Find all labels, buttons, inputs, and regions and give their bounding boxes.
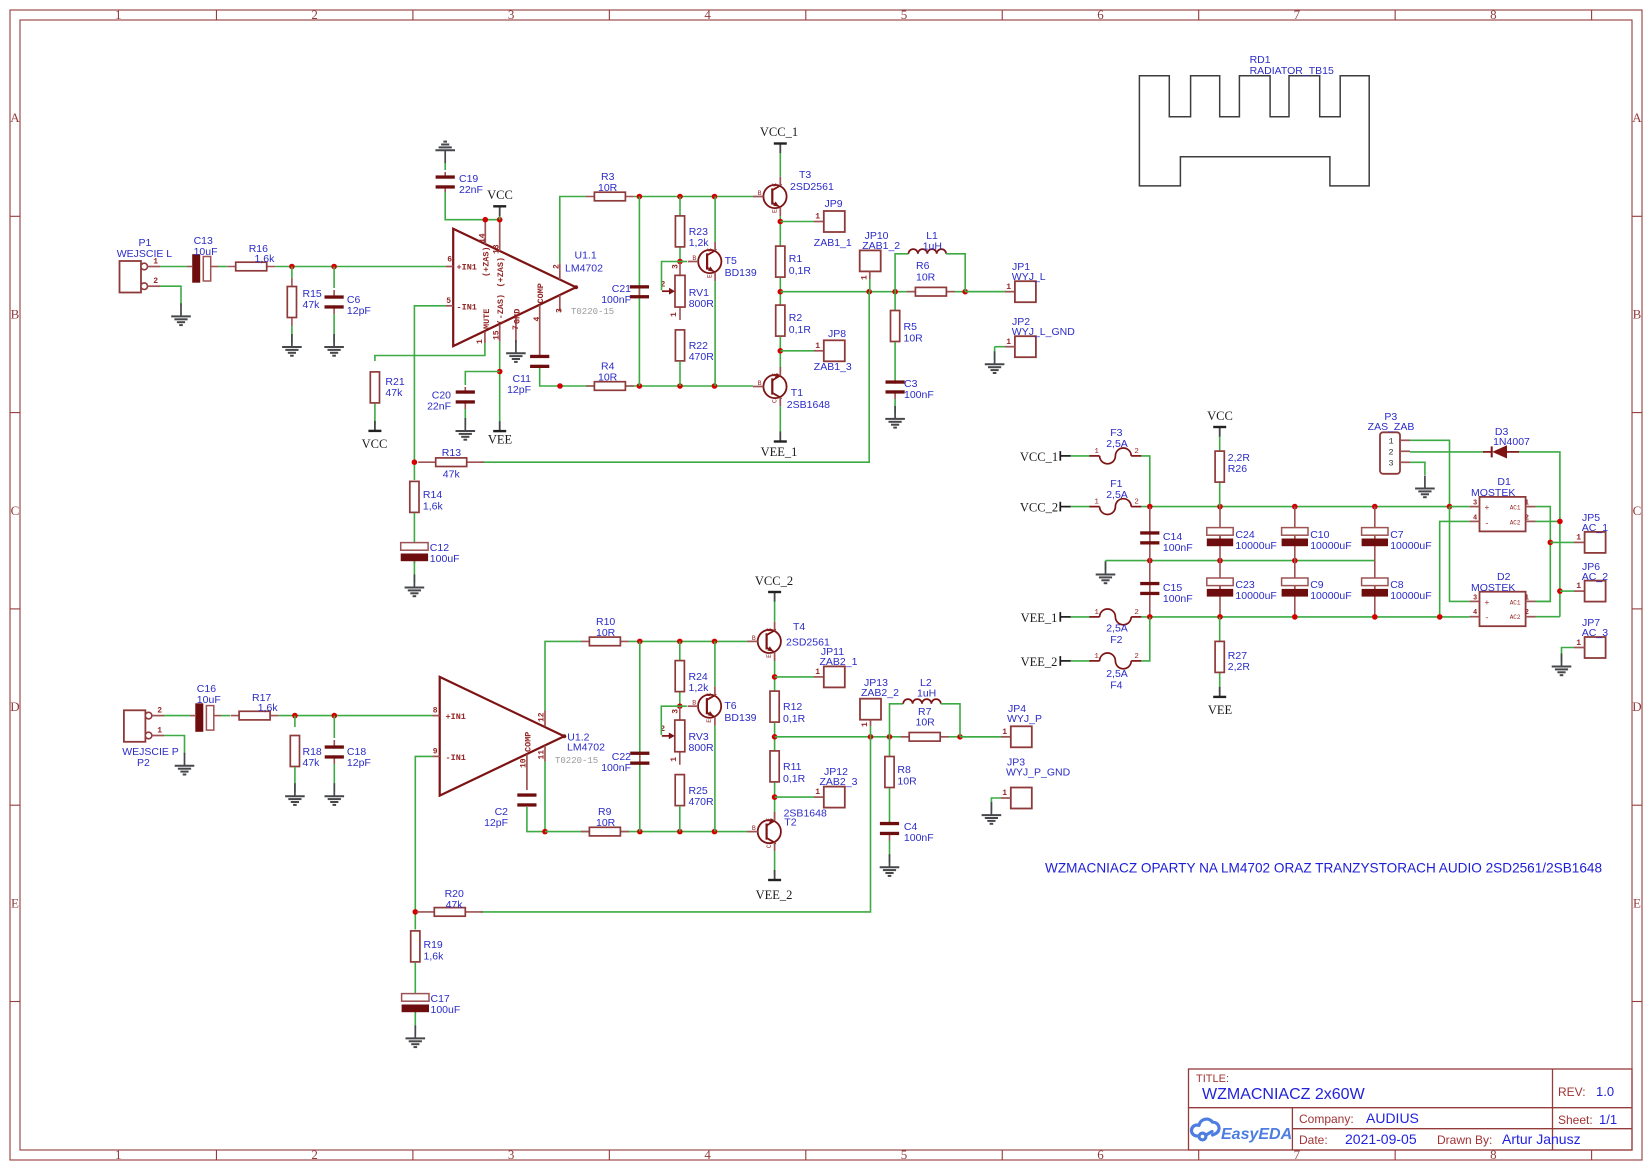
svg-text:R5: R5 [904,321,918,333]
resistor R10 10R [581,640,629,642]
svg-text:T0220-15: T0220-15 [571,307,614,317]
capacitor C7 10000uF [1374,507,1376,561]
wire to JP11 [775,676,814,678]
svg-text:4: 4 [704,7,711,22]
wire D1+ [1450,506,1470,508]
svg-text:12pF: 12pF [347,305,371,317]
node C21 bottom [637,383,643,389]
capacitor C4 100nF [889,788,891,822]
svg-text:6: 6 [1097,7,1104,22]
wire F3 to VCC rail [1141,456,1149,507]
svg-text:9: 9 [433,747,438,756]
capacitor C23 10000uF [1219,561,1221,617]
svg-text:0,1R: 0,1R [783,773,806,785]
connector P3 ZAS_ZAB [1380,432,1400,474]
potentiometer RV1 800R [679,262,681,320]
node gnd/C10-C9 [1292,558,1298,564]
svg-text:-IN1: -IN1 [457,302,477,312]
svg-text:1: 1 [1094,609,1099,617]
feedback wire ch2 [481,737,871,912]
resistor R13 47k [418,461,484,463]
svg-text:B: B [752,825,756,832]
transistor T1 2SB1648 [763,375,786,398]
fuse F3 2,5A [1089,455,1099,457]
node output rail ch2 [774,723,776,750]
resistor R5 10R [894,292,896,310]
svg-text:TITLE:: TITLE: [1196,1073,1229,1085]
svg-text:B: B [752,635,756,642]
svg-text:MUTE: MUTE [482,309,492,329]
svg-text:100nF: 100nF [904,389,934,401]
svg-text:100nF: 100nF [904,832,934,844]
svg-text:100nF: 100nF [1163,593,1193,605]
resistor R18 47k [294,716,296,727]
svg-text:2: 2 [157,707,162,716]
svg-text:Artur Janusz: Artur Janusz [1502,1131,1581,1147]
wiper wire RV1 to T5 base node [662,262,681,291]
svg-text:2: 2 [1134,609,1139,617]
svg-text:2,5A: 2,5A [1106,489,1128,501]
svg-text:(+ZAS): (+ZAS) [496,257,506,288]
svg-text:12: 12 [538,712,547,722]
svg-text:MOSTEK: MOSTEK [1471,582,1515,594]
svg-text:VEE: VEE [1208,703,1233,717]
op-amp U1.2 LM4702 [440,677,565,796]
wire P3.1 to bridge + [1410,440,1450,506]
svg-text:2: 2 [153,277,158,286]
svg-text:7: 7 [512,325,521,330]
svg-text:10R: 10R [598,182,618,194]
bottom rail [545,831,748,833]
resistor R24 1,2k [679,641,681,706]
capacitor C13 10uF [187,266,192,268]
U1.2 pin 10 COMP [526,754,528,790]
svg-text:1: 1 [1006,283,1011,292]
jumper JP1 WYJ_L [965,291,1005,293]
node R15 tap [289,264,295,270]
node pin11 [542,829,548,835]
svg-text:1,6k: 1,6k [424,951,445,963]
svg-text:2: 2 [1525,609,1529,617]
svg-text:C: C [766,628,773,632]
svg-text:A: A [1632,110,1642,125]
wire D1.AC1 bus [1536,507,1551,602]
svg-text:1/1: 1/1 [1599,1112,1617,1127]
svg-text:10uF: 10uF [197,694,221,706]
svg-text:2: 2 [1134,653,1139,661]
svg-text:5: 5 [446,297,451,306]
node R24 top [677,639,683,645]
wire JP5 [1550,541,1574,543]
top rail to T4 base [629,640,748,642]
svg-text:AC1: AC1 [1510,505,1521,512]
svg-text:U1.1: U1.1 [575,250,597,262]
svg-text:R1: R1 [789,253,803,265]
top rail R3 to T3 base [634,196,753,198]
svg-text:3: 3 [508,7,515,22]
wire U1.1 output to top rail [560,197,586,264]
svg-text:(-ZAS): (-ZAS) [496,294,506,325]
svg-text:T5: T5 [725,255,737,267]
capacitor C8 10000uF [1374,561,1376,617]
svg-text:8: 8 [433,707,438,716]
svg-text:2SD2561: 2SD2561 [790,181,834,193]
svg-text:AC_3: AC_3 [1582,627,1608,639]
resistor R1 0,1R [779,246,781,278]
svg-text:T6: T6 [724,700,736,712]
node C10 [1292,504,1298,510]
wire D1- to VEE rail [1440,521,1470,617]
ground under C3 [894,399,896,414]
ground at JP7 [1561,654,1563,667]
svg-text:100uF: 100uF [431,1004,461,1016]
wire to JP8 [780,350,814,352]
svg-text:800R: 800R [689,742,715,754]
svg-text:1: 1 [157,727,162,736]
svg-text:D: D [10,699,19,714]
node C21 top [637,194,643,200]
svg-text:1: 1 [1094,448,1099,456]
svg-text:2: 2 [311,1147,318,1162]
svg-text:15: 15 [493,330,502,340]
wire JP2 to ground [995,346,1005,348]
svg-text:0,1R: 0,1R [789,265,812,277]
svg-text:EasyEDA: EasyEDA [1221,1126,1292,1143]
transistor T3 2SD2561 [763,185,786,208]
wire P1.1 to C13 [160,266,187,268]
svg-text:47k: 47k [446,899,464,911]
node L1/R6 left [892,289,898,295]
ground under R15 [291,326,293,343]
svg-text:BD139: BD139 [725,267,757,279]
svg-text:C: C [772,399,779,403]
svg-text:VEE: VEE [488,433,513,447]
resistor R23 1,2k [679,197,681,262]
svg-text:10000uF: 10000uF [1235,590,1276,602]
svg-text:6: 6 [447,256,452,265]
svg-text:R12: R12 [783,701,802,713]
svg-text:E: E [706,719,713,723]
jumper JP3 WYJ_P_GND [1011,788,1032,809]
svg-text:ZAB2_3: ZAB2_3 [820,776,858,788]
VCC rail [1141,506,1449,508]
node D1- on VEE rail [1437,614,1443,620]
svg-text:2,5A: 2,5A [1106,623,1128,635]
svg-text:Drawn By:: Drawn By: [1437,1133,1492,1147]
capacitor C17 100uF [414,962,416,994]
capacitor C9 10000uF [1294,561,1296,617]
svg-text:100nF: 100nF [1163,542,1193,554]
svg-text:3: 3 [556,308,565,313]
svg-text:1N4007: 1N4007 [1493,436,1530,448]
svg-text:E: E [772,209,779,213]
svg-text:R19: R19 [424,939,443,951]
svg-text:7: 7 [1294,1147,1301,1162]
svg-text:8: 8 [1490,1147,1497,1162]
wire D2+ from VCC riser [1450,507,1470,602]
capacitor C16 10uF [190,715,195,717]
resistor R25 470R [679,789,681,791]
node R25 bottom [677,829,683,835]
inductor L1 1uH [895,254,908,292]
svg-text:12pF: 12pF [347,757,371,769]
VEE power flag below R27 [1219,687,1221,697]
svg-text:22nF: 22nF [459,184,483,196]
svg-text:10R: 10R [904,333,924,345]
svg-text:100nF: 100nF [601,762,631,774]
jumper JP8 ZAB1_3 [824,340,845,361]
svg-text:10uF: 10uF [194,246,218,258]
svg-text:2: 2 [311,7,318,22]
resistor R19 1,6k [414,930,416,962]
svg-text:REV:: REV: [1558,1085,1586,1099]
svg-text:VCC_2: VCC_2 [1020,501,1058,515]
svg-text:JP8: JP8 [828,328,846,340]
wire JP10 to rail [869,279,871,292]
resistor R26 2,2R [1219,466,1221,468]
svg-text:A: A [10,110,20,125]
svg-text:1: 1 [1576,534,1581,543]
svg-text:3: 3 [1389,459,1394,469]
svg-text:4: 4 [704,1147,711,1162]
U1.1 pin 4 COMP [539,305,541,357]
node pin3 [557,383,563,389]
svg-text:1: 1 [1002,789,1007,798]
fuse F1 2,5A [1089,506,1099,508]
resistor R16 1,6k [227,266,275,268]
jumper JP2 WYJ_L_GND [1015,336,1036,357]
svg-text:E: E [1633,895,1641,910]
svg-text:ZAB1_2: ZAB1_2 [862,240,900,252]
svg-text:ZAB1_1: ZAB1_1 [814,237,852,249]
svg-text:1: 1 [1094,499,1099,507]
svg-text:1: 1 [861,722,870,727]
VCC power flag above U1.1 [499,212,501,220]
node T5 emitter [712,383,718,389]
U1.2 pin 11 [544,746,546,762]
node feedback/R20/R19 [413,909,419,915]
svg-text:E: E [706,274,713,278]
resistor R9 10R [581,831,629,833]
resistor R6 10R [907,291,955,293]
svg-text:JP9: JP9 [825,198,843,210]
svg-text:AUDIUS: AUDIUS [1366,1110,1419,1126]
svg-text:2021-09-05: 2021-09-05 [1345,1131,1417,1147]
svg-text:800R: 800R [689,298,715,310]
feedback wire from rail to R13 [481,292,870,463]
resistor R4 10R [586,385,634,387]
wire pin11 to bottom rail [544,762,546,832]
jumper JP4 WYJ_P [960,736,1001,738]
svg-text:C: C [772,183,779,187]
capacitor C6 12pF [333,290,335,299]
svg-text:+: + [1485,599,1490,608]
svg-text:WYJ_L: WYJ_L [1012,271,1046,283]
svg-text:12pF: 12pF [484,817,508,829]
resistor R20 47k [417,911,483,913]
svg-text:VEE_2: VEE_2 [756,888,793,902]
svg-text:LM4702: LM4702 [567,742,605,754]
svg-text:1,2k: 1,2k [689,237,710,249]
U1.1 pin 6 +IN1 [446,266,453,268]
svg-text:1: 1 [115,1147,122,1162]
U1.1 pin 1 MUTE [484,332,486,344]
svg-text:47k: 47k [443,469,461,481]
svg-text:2SB1648: 2SB1648 [784,808,827,820]
capacitor C12 100uF [413,513,415,543]
svg-text:3: 3 [508,1147,515,1162]
wire D2.AC2 [1536,616,1560,618]
wire JP7 to ground [1574,647,1585,649]
wire R16 to +IN1 with taps [275,266,446,268]
svg-text:-: - [1485,519,1490,528]
svg-text:COMP: COMP [524,732,534,752]
svg-text:2,5A: 2,5A [1106,668,1128,680]
svg-text:2,5A: 2,5A [1106,438,1128,450]
svg-text:ZAB2_2: ZAB2_2 [861,687,899,699]
T4 emitter to node [774,661,776,691]
svg-text:T3: T3 [799,169,811,181]
wire -IN1 down to feedback node [414,306,446,480]
svg-text:10000uF: 10000uF [1235,540,1276,552]
svg-text:1: 1 [1002,728,1007,737]
diode D3 1N4007 [1491,446,1493,457]
transistor T6 BD139 [680,705,687,707]
VEE_2 power flag [774,851,776,874]
op-amp U1.1 LM4702 [453,229,576,346]
node AC2 bus [1557,519,1563,525]
node gnd/C24-C23 [1217,558,1223,564]
wire D2.AC1 [1536,600,1551,602]
svg-text:P2: P2 [137,757,150,769]
wire -IN1 ch2 down to feedback node [415,756,432,929]
svg-text:T1: T1 [791,387,803,399]
wire output to top rail [545,641,581,710]
svg-text:B: B [692,700,696,707]
svg-text:1: 1 [861,275,870,280]
svg-text:B: B [692,255,696,262]
connector P2 WEJSCIE P [124,710,145,742]
ground under C20 [464,409,466,427]
wire C11 to bottom rail [540,368,560,386]
svg-text:ZAB1_3: ZAB1_3 [814,361,852,373]
svg-text:10000uF: 10000uF [1310,540,1351,552]
node C18 tap [332,713,338,719]
svg-text:(+ZAS): (+ZAS) [482,246,492,277]
svg-text:1,6k: 1,6k [255,253,276,265]
ground of PSU [1105,562,1107,575]
output rail wire [780,291,1015,293]
node C6 tap [331,264,337,270]
wire JP3 to ground [1001,797,1011,799]
svg-text:AC_1: AC_1 [1582,522,1608,534]
U1.2 pin 8 +IN1 [433,715,440,717]
title block [1189,1069,1633,1150]
node R27 [1217,614,1223,620]
svg-text:3: 3 [1473,594,1477,602]
node ZAB1_1 [778,219,784,225]
wiper wire RV3 to T6 base node [661,706,680,735]
svg-text:100nF: 100nF [601,294,631,306]
svg-text:T0220-15: T0220-15 [555,756,598,766]
transistor T5 BD139 [680,261,687,263]
svg-text:VEE_1: VEE_1 [761,445,798,459]
jumper JP7 AC_3 [1585,637,1606,658]
node ZAB1_3 [779,337,781,375]
svg-text:4: 4 [533,317,542,322]
connector P1 WEJSCIE L [120,261,142,293]
svg-text:C: C [1633,503,1642,518]
svg-text:7: 7 [1294,7,1301,22]
svg-text:WEJSCIE P: WEJSCIE P [122,746,179,758]
U1.1 pin 2 output [559,263,561,279]
svg-text:C: C [706,248,713,252]
svg-text:1: 1 [1006,338,1011,347]
svg-text:MOSTEK: MOSTEK [1471,487,1515,499]
svg-text:AC1: AC1 [1510,599,1521,606]
svg-text:-IN1: -IN1 [446,753,466,763]
U1.1 pin 13 (+ZAS) [499,220,501,251]
svg-text:1: 1 [815,668,820,677]
svg-text:47k: 47k [303,757,321,769]
wire P2.1 to ground [164,736,185,755]
inductor L2 1uH [890,704,904,737]
svg-text:10R: 10R [897,776,917,788]
svg-text:2,2R: 2,2R [1228,661,1251,673]
fuse F2 2,5A [1089,616,1099,618]
svg-text:1uH: 1uH [923,241,942,253]
node T6 emitter [712,829,718,835]
ground under C6 [333,314,335,343]
svg-text:E: E [766,818,773,822]
svg-text:2SB1648: 2SB1648 [787,399,830,411]
svg-text:R13: R13 [442,447,461,459]
bridge rectifier D2 MOSTEK [1480,592,1526,627]
svg-text:BD139: BD139 [724,712,756,724]
svg-text:1uH: 1uH [917,688,936,700]
svg-text:12pF: 12pF [507,384,531,396]
capacitor C22 100nF [639,641,641,831]
node C20 tap [497,369,503,375]
svg-text:5: 5 [901,1147,908,1162]
U1.2 pin 12 output [544,711,546,727]
VEE power flag below U1.1 [499,421,501,431]
capacitor C20 22nF [464,387,466,394]
node output rail / R1 [779,278,781,305]
transistor T2 2SB1648 [758,820,781,843]
fuse F4 2,5A [1089,660,1099,662]
node C22 bottom [637,829,643,835]
wire to JP9 [780,221,814,223]
wire P3.2 to D3 [1410,451,1483,453]
resistor R2 0,1R [779,305,781,337]
U1.1 pin 5 -IN1 [446,305,453,307]
svg-text:0,1R: 0,1R [783,713,806,725]
svg-text:1: 1 [670,757,679,762]
svg-text:1,2k: 1,2k [689,682,710,694]
ground under C17 [414,1013,416,1035]
node C22 top [637,639,643,645]
node JP5 tap [1548,540,1554,546]
svg-text:LM4702: LM4702 [565,263,603,275]
ground under C18 [333,764,335,792]
node R22 bottom [677,383,683,389]
VCC power flag below R21 [374,403,376,425]
svg-text:13: 13 [493,244,502,254]
wire C16 to R17 [221,715,230,717]
svg-text:E: E [772,373,779,377]
svg-text:F4: F4 [1110,680,1122,692]
